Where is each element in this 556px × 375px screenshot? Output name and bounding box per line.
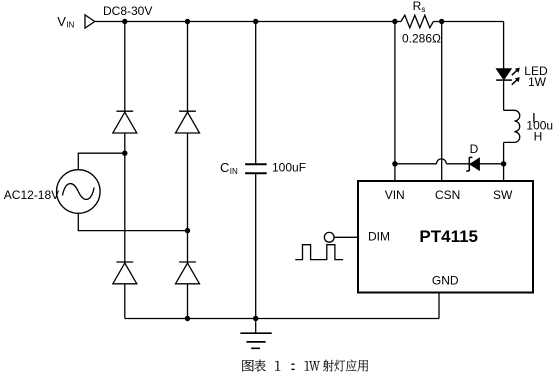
label CIN bbox=[220, 160, 238, 176]
wire top rail right bbox=[433, 21, 503, 23]
wire AC top lead bbox=[78, 153, 125, 170]
pin label VIN bbox=[385, 188, 405, 202]
node dot Rs left bbox=[392, 19, 397, 24]
label VIN bbox=[57, 14, 74, 30]
label LED bbox=[524, 64, 548, 78]
wire bridge branch 1 bbox=[124, 22, 126, 319]
label PT4115 bbox=[419, 227, 478, 246]
node dot AC top bbox=[122, 151, 127, 156]
resistor R_s bbox=[401, 15, 433, 28]
LED D5 bbox=[496, 68, 520, 85]
wire top rail left bbox=[95, 21, 401, 23]
PWM waveform bbox=[295, 245, 343, 260]
stray tick over label bbox=[533, 113, 535, 123]
label AC12-18V bbox=[4, 188, 59, 202]
node dot Rs right bbox=[439, 19, 444, 24]
AC source V1 bbox=[57, 170, 101, 214]
wire DIM bbox=[334, 236, 358, 238]
svg-text:CSN: CSN bbox=[435, 188, 460, 202]
pin label SW bbox=[493, 188, 513, 202]
pin label DIM bbox=[368, 230, 390, 244]
svg-text:SW: SW bbox=[493, 188, 513, 202]
pin label GND bbox=[432, 274, 459, 288]
DIM input circle bbox=[324, 232, 334, 242]
node dot top rail branch2 bbox=[185, 19, 190, 24]
wire LED to inductor bbox=[503, 80, 505, 110]
svg-text:s: s bbox=[421, 5, 425, 14]
wire hop to diode bbox=[446, 163, 469, 165]
wire inductor to SW bbox=[503, 142, 505, 181]
diode D3 bottom-left bbox=[113, 262, 137, 284]
diode D1 top-left bbox=[113, 111, 137, 133]
svg-text:H: H bbox=[534, 130, 543, 144]
node dot bottom rail ground bbox=[253, 316, 258, 321]
ground symbol bbox=[240, 319, 271, 349]
svg-text:IN: IN bbox=[66, 21, 74, 30]
label 100uF bbox=[272, 160, 306, 174]
label 100uH bbox=[526, 119, 553, 144]
node dot bottom rail branch2 bbox=[185, 316, 190, 321]
label Rs bbox=[413, 0, 426, 14]
svg-text:0.286Ω: 0.286Ω bbox=[402, 31, 441, 45]
node dot SW junction bbox=[501, 161, 506, 166]
svg-text:DIM: DIM bbox=[368, 230, 390, 244]
wire CSN branch bbox=[441, 22, 443, 182]
node dot AC bottom bbox=[185, 228, 190, 233]
svg-text:V: V bbox=[57, 14, 66, 29]
svg-text:100uF: 100uF bbox=[272, 160, 306, 174]
label DC8-30V bbox=[103, 4, 152, 18]
inductor L1 bbox=[504, 110, 520, 142]
wire hop over CSN bbox=[437, 159, 447, 164]
wire VIN branch bbox=[394, 22, 396, 182]
wire LED branch top bbox=[503, 22, 505, 69]
caption 1W LED application bbox=[242, 360, 368, 372]
label D bbox=[470, 142, 479, 156]
capacitor C_IN bbox=[245, 22, 267, 319]
svg-text:GND: GND bbox=[432, 274, 459, 288]
svg-text:1W: 1W bbox=[528, 75, 547, 89]
pin label CSN bbox=[435, 188, 460, 202]
IC U1 PT4115 box bbox=[358, 181, 533, 293]
wire diode to SW bbox=[479, 163, 503, 165]
node dot freewheel left bbox=[392, 161, 397, 166]
wire AC bottom lead bbox=[78, 213, 187, 230]
svg-text:IN: IN bbox=[230, 167, 238, 176]
diode D2 top-right bbox=[176, 111, 200, 133]
wire bridge branch 2 bbox=[187, 22, 189, 319]
svg-text:PT4115: PT4115 bbox=[419, 227, 478, 246]
node dot top rail branch1 bbox=[122, 19, 127, 24]
wire bottom rail bbox=[125, 318, 439, 320]
wire GND pin bbox=[438, 293, 440, 319]
input port triangle bbox=[85, 15, 95, 28]
node dot top rail CIN bbox=[253, 19, 258, 24]
label 0.286ohm bbox=[402, 31, 441, 45]
svg-text:R: R bbox=[413, 0, 422, 13]
svg-text:VIN: VIN bbox=[385, 188, 405, 202]
svg-text:DC8-30V: DC8-30V bbox=[103, 4, 152, 18]
svg-text:C: C bbox=[220, 160, 229, 175]
svg-text:D: D bbox=[470, 142, 479, 156]
svg-text:AC12-18V: AC12-18V bbox=[4, 188, 59, 202]
label 1W bbox=[528, 75, 547, 89]
wire freewheel left bbox=[395, 163, 437, 165]
schottky diode D bbox=[466, 157, 479, 171]
diode D4 bottom-right bbox=[176, 262, 200, 284]
